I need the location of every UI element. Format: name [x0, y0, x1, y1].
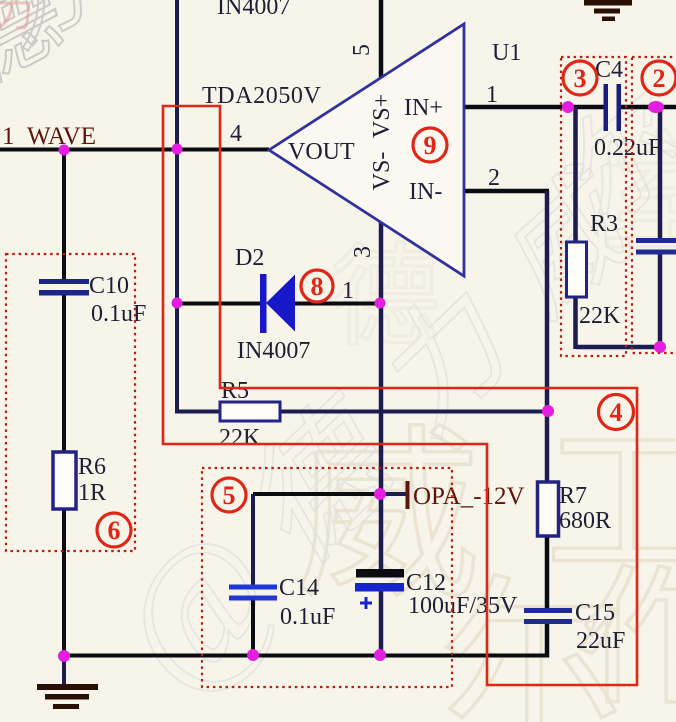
svg-text:680R: 680R — [559, 508, 611, 534]
annotation circle 4 — [599, 395, 634, 430]
wire: R7 to C15 — [545, 536, 550, 609]
svg-text:C10: C10 — [89, 273, 129, 299]
svg-text:22K: 22K — [219, 425, 261, 451]
svg-text:1 WAVE: 1 WAVE — [2, 123, 96, 150]
junction dot — [654, 341, 666, 353]
svg-text:1R: 1R — [78, 480, 106, 506]
svg-text:6: 6 — [108, 516, 121, 545]
capacitor C4 — [604, 84, 622, 131]
wire: R3 branch lower — [573, 297, 578, 349]
svg-text:D2: D2 — [235, 245, 264, 271]
wire: pin 5 stub — [379, 0, 384, 80]
svg-text:R7: R7 — [559, 483, 587, 509]
svg-text:2: 2 — [653, 64, 666, 93]
junction dot — [247, 649, 259, 661]
svg-text:力: 力 — [0, 0, 34, 35]
svg-text:U1: U1 — [492, 40, 521, 66]
wire: R5 left lead — [175, 410, 221, 414]
wire: R5 right lead to node — [279, 410, 549, 414]
svg-text:100uF/35V: 100uF/35V — [408, 593, 518, 619]
wire: C14 upper lead — [251, 494, 255, 585]
ground (top right) — [584, 0, 632, 21]
wire: C10 branch top — [62, 150, 66, 281]
capacitor in box 2 (unlabeled) — [636, 238, 676, 255]
junction dot — [374, 649, 386, 661]
svg-text:22uF: 22uF — [576, 628, 625, 654]
wire: bottom ground rail — [62, 654, 549, 658]
resistor R6 — [53, 452, 76, 509]
svg-text:5: 5 — [349, 44, 375, 56]
wire: input row y=150 — [0, 148, 269, 152]
annotation circle 9 — [413, 128, 447, 162]
wire: node column down to R7 — [545, 191, 550, 482]
svg-text:22K: 22K — [579, 303, 621, 329]
svg-text:C14: C14 — [279, 575, 319, 601]
junction dot — [562, 101, 574, 113]
svg-text:OPA_-12V: OPA_-12V — [413, 483, 525, 510]
op-amp U1 TDA2050V — [269, 24, 464, 276]
capacitor C14 — [229, 585, 277, 601]
junction dot — [374, 488, 386, 500]
svg-text:0.22uF: 0.22uF — [594, 135, 661, 161]
wire: pin 3 column down to C12 — [379, 221, 384, 570]
svg-text:R3: R3 — [590, 211, 618, 237]
wire: R3 branch upper — [573, 107, 578, 242]
wire: vertical feedback column x=177 — [175, 0, 179, 412]
annotation circle 6 — [97, 513, 131, 547]
svg-text:C15: C15 — [575, 600, 615, 626]
annotation dotted box 2 — [632, 57, 676, 353]
svg-text:3: 3 — [574, 64, 587, 93]
annotation circle 3 — [563, 61, 597, 95]
wire: C14 lower lead — [251, 600, 255, 657]
wire: box3 bottom link — [576, 345, 661, 350]
wire: OPA port stub — [381, 492, 406, 496]
svg-text:2: 2 — [488, 165, 500, 191]
svg-text:VS+: VS+ — [369, 94, 395, 138]
junction dot — [59, 145, 70, 156]
junction dot — [172, 298, 183, 309]
svg-text:IN+: IN+ — [404, 95, 443, 121]
wire: C14 top link — [253, 492, 381, 496]
wire: pin 1 row right — [620, 105, 676, 110]
wire: C10 to R6 — [62, 295, 66, 453]
wire: C12 bottom to rail — [379, 591, 384, 656]
svg-text:4: 4 — [610, 398, 623, 427]
capacitor C10 — [39, 279, 89, 296]
svg-text:1: 1 — [342, 278, 354, 304]
wire: R6 to ground rail — [62, 509, 66, 656]
svg-text:0.1uF: 0.1uF — [280, 604, 335, 630]
resistor R5 — [220, 402, 280, 421]
annotation dotted box 5 — [202, 468, 452, 687]
wire: pin 1 row left — [464, 105, 604, 110]
annotation dotted box 6 — [6, 254, 135, 551]
wire: pin 2 row — [464, 189, 549, 194]
diode D2 — [260, 274, 295, 333]
svg-text:9: 9 — [424, 131, 437, 160]
resistor R7 — [538, 482, 559, 536]
svg-text:C4: C4 — [595, 57, 623, 83]
junction dot — [542, 405, 554, 417]
svg-text:IN4007: IN4007 — [237, 338, 310, 364]
capacitor C12 electrolytic — [355, 569, 404, 609]
svg-text:3: 3 — [350, 246, 376, 258]
svg-text:8: 8 — [311, 272, 324, 301]
svg-text:1: 1 — [486, 82, 498, 108]
annotation circle 2 — [642, 61, 676, 95]
svg-text:R5: R5 — [221, 378, 249, 404]
svg-text:5: 5 — [223, 481, 236, 510]
svg-text:VOUT: VOUT — [288, 139, 355, 165]
svg-text:R6: R6 — [78, 454, 106, 480]
annotation circle 8 — [301, 270, 333, 302]
annotation circle 5 — [212, 478, 246, 512]
svg-text:IN4007: IN4007 — [217, 0, 290, 20]
svg-text:IN-: IN- — [409, 179, 442, 205]
wire: box2 cap upper lead — [658, 107, 663, 238]
svg-text:4: 4 — [230, 121, 242, 147]
wire: D2 right lead to pin3 column — [294, 302, 383, 306]
junction dot — [648, 101, 664, 113]
resistor R3 — [567, 242, 587, 297]
svg-text:0.1uF: 0.1uF — [91, 301, 146, 327]
junction dot — [375, 298, 386, 309]
annotation dotted box 3 — [561, 57, 626, 356]
junction dot — [58, 650, 70, 662]
capacitor C15 — [524, 608, 572, 624]
wire: box2 cap lower lead — [658, 254, 663, 349]
svg-text:VS-: VS- — [369, 152, 395, 191]
annotation red polygon 4 outline — [163, 106, 637, 685]
ground (bottom left) — [37, 656, 98, 709]
wire: D2 left lead — [177, 302, 261, 306]
junction dot — [172, 144, 183, 155]
port OPA_-12V bar — [406, 481, 410, 509]
wire: C15 to rail — [545, 623, 550, 658]
